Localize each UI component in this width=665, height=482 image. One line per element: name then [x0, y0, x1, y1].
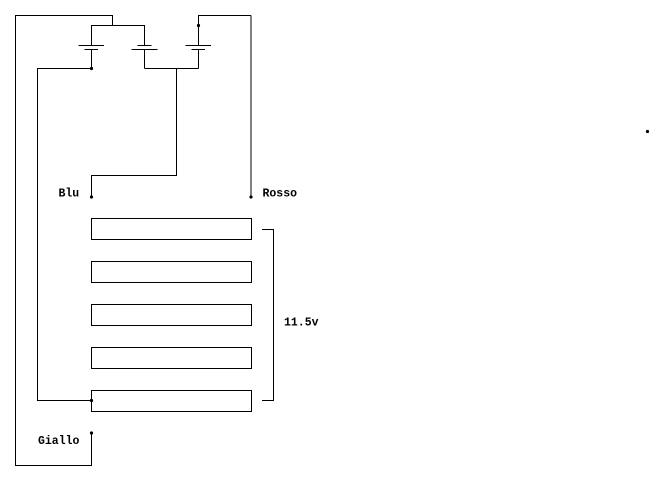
- node dot at cell plate 5 left: [90, 399, 93, 402]
- battery B2 positive plate: [132, 49, 158, 51]
- wire bottom bus between battery B2 and B3: [145, 68, 199, 70]
- node Blu: [90, 195, 93, 198]
- battery B1 negative plate: [85, 49, 99, 51]
- cell plate 3: [92, 305, 252, 326]
- wire from battery B1 bottom left and down to cell stack: [38, 69, 92, 401]
- node dot on battery B3 top lead: [197, 24, 200, 27]
- battery B2 top lead: [144, 26, 146, 46]
- svg-text:Giallo: Giallo: [38, 435, 80, 448]
- battery B3 positive plate: [186, 45, 212, 47]
- battery B2 negative plate: [138, 45, 152, 47]
- wire outer loop: Giallo node up-left-top to battery bus: [16, 16, 113, 466]
- bracket 11.5v: [262, 230, 274, 401]
- cell plate 5: [92, 391, 252, 412]
- battery B3 bottom lead: [198, 50, 200, 69]
- cell plate 4: [92, 348, 252, 369]
- cell plate 1: [92, 219, 252, 240]
- battery B3 negative plate: [192, 49, 206, 51]
- battery B1 positive plate: [79, 45, 105, 47]
- svg-text:11.5v: 11.5v: [284, 317, 319, 330]
- battery B1 bottom lead: [91, 50, 93, 69]
- wire battery B3 top to Rosso rail: [199, 16, 252, 46]
- node dot battery B1 bottom junction: [90, 67, 93, 70]
- stray node dot right side: [646, 130, 649, 133]
- svg-text:Blu: Blu: [59, 188, 80, 201]
- wire from bottom bus down to Blu node: [92, 69, 177, 198]
- node Rosso: [249, 195, 252, 198]
- wire top bus between battery B1 and B2: [91, 25, 145, 27]
- battery B1 top lead: [91, 26, 93, 46]
- battery B2 bottom lead: [144, 50, 146, 69]
- wire Rosso rail: [250, 16, 252, 198]
- node Giallo: [90, 431, 93, 434]
- cell plate 2: [92, 262, 252, 283]
- svg-text:Rosso: Rosso: [263, 188, 298, 201]
